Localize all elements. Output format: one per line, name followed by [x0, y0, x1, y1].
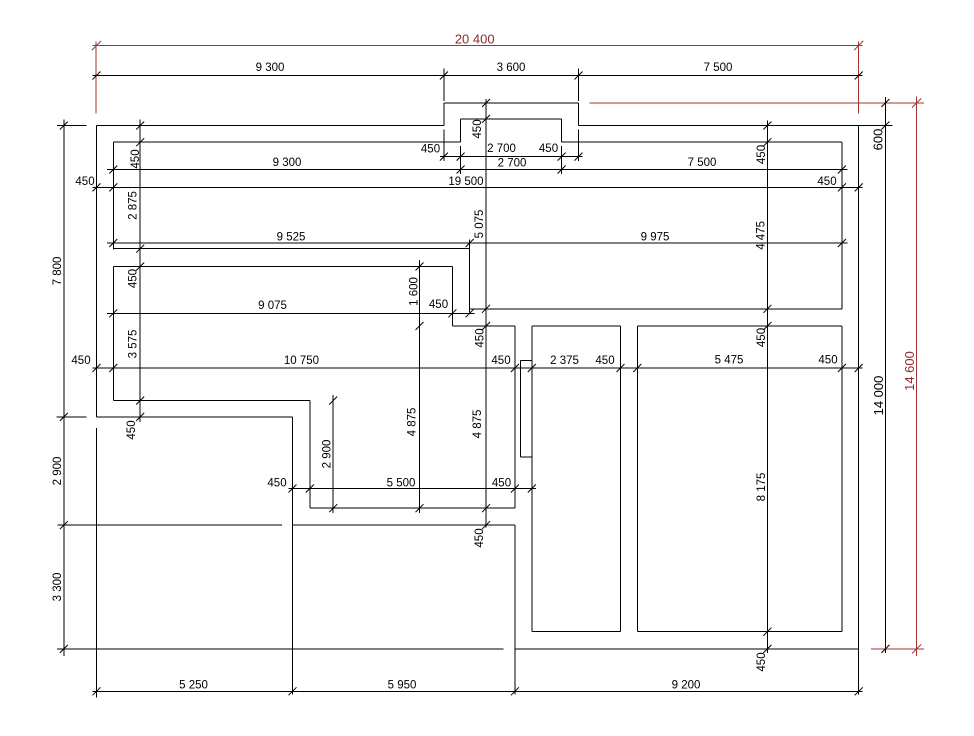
- red tick 14600 top: [912, 98, 921, 107]
- wall C bottom edge (Y5375): [452, 325, 842, 327]
- svg-text:450: 450: [756, 145, 768, 164]
- wall C top edge (Y4925): [470, 308, 842, 310]
- label 7 500 (T1): [704, 62, 733, 74]
- red label 14 600: [902, 351, 917, 391]
- label 450 (T4 r): [817, 176, 836, 188]
- wall: bump top outer edge: [444, 102, 579, 104]
- svg-text:450: 450: [130, 149, 142, 168]
- svg-text:450: 450: [818, 354, 837, 366]
- svg-text:450: 450: [756, 652, 768, 671]
- wall: bump inner left: [460, 119, 462, 142]
- wall D top edge (Y10250): [310, 507, 515, 509]
- wall A/C connector mid (X9975): [469, 240, 471, 313]
- label 4 875 (left): [406, 408, 418, 437]
- label 9 300 (T3): [273, 157, 302, 169]
- label 3 575: [128, 330, 140, 359]
- label 5 075: [474, 210, 486, 239]
- svg-text:450: 450: [75, 176, 94, 188]
- label 2 700 (T3): [498, 157, 527, 169]
- label 8 175: [756, 473, 768, 502]
- svg-text:2 900: 2 900: [321, 440, 333, 469]
- label 9 975 (M1): [641, 231, 670, 243]
- ticks T3: [109, 166, 846, 174]
- dim line T2 (450/2700/450): [440, 156, 583, 158]
- label 450 (li b): [128, 269, 140, 288]
- label 450 (T4 l): [75, 176, 94, 188]
- ticks bottom: [93, 687, 863, 695]
- label 600: [870, 129, 885, 151]
- svg-text:5 500: 5 500: [387, 477, 416, 489]
- dim line M2 (9075/450): [107, 312, 475, 314]
- label 9 200: [672, 679, 701, 691]
- svg-text:19 500: 19 500: [448, 176, 483, 188]
- svg-text:4 875: 4 875: [472, 410, 484, 439]
- red ext bottom (right): [871, 648, 924, 650]
- wall V3 right edge (X11650): [531, 326, 533, 632]
- wall: bottom wall inner edge under rooms: [532, 631, 842, 633]
- svg-text:450: 450: [126, 420, 138, 439]
- svg-text:14 000: 14 000: [871, 376, 886, 416]
- svg-text:450: 450: [492, 477, 511, 489]
- svg-text:2 875: 2 875: [128, 191, 140, 220]
- label 5 500: [387, 477, 416, 489]
- wall: bump inner right: [561, 119, 563, 142]
- label 450 (li a): [130, 149, 142, 168]
- ext T2 inner left: [460, 146, 462, 174]
- wall: bump outer right: [578, 103, 580, 126]
- svg-text:20 400: 20 400: [455, 31, 495, 46]
- label 450 (T2 l): [421, 143, 440, 155]
- svg-text:9 975: 9 975: [641, 231, 670, 243]
- dim line left inner chain: [139, 120, 141, 423]
- svg-text:2 700: 2 700: [487, 143, 516, 155]
- label 2 875: [128, 191, 140, 220]
- svg-text:1 600: 1 600: [408, 277, 420, 306]
- ticks M1: [109, 239, 846, 247]
- wall A bottom edge (Y3775): [113, 266, 452, 268]
- svg-text:450: 450: [71, 355, 90, 367]
- svg-text:450: 450: [474, 328, 486, 347]
- svg-text:3 300: 3 300: [52, 573, 64, 602]
- label 450 (M2): [429, 299, 448, 311]
- label 450 (5500 l): [267, 477, 286, 489]
- svg-text:450: 450: [817, 176, 836, 188]
- svg-text:450: 450: [429, 299, 448, 311]
- ticks left chain: [60, 122, 68, 653]
- ticks T4: [93, 183, 863, 191]
- svg-text:450: 450: [267, 477, 286, 489]
- dim line x486 chain: [485, 99, 487, 528]
- svg-text:9 075: 9 075: [258, 300, 287, 312]
- svg-text:7 800: 7 800: [52, 257, 64, 286]
- red ext left: [95, 42, 97, 114]
- svg-text:600: 600: [870, 129, 885, 151]
- label 7 800: [52, 257, 64, 286]
- svg-text:2 700: 2 700: [498, 157, 527, 169]
- svg-text:3 575: 3 575: [128, 330, 140, 359]
- label 450 (x486 a): [472, 119, 484, 138]
- dim line right outer chain: [884, 97, 886, 653]
- dim line right inner chain: [766, 120, 768, 653]
- svg-text:450: 450: [756, 328, 768, 347]
- label 9 525 (M1): [277, 231, 306, 243]
- wall: top wall inner edge: [113, 141, 842, 143]
- svg-text:4 875: 4 875: [406, 408, 418, 437]
- wall: bottom outer edge (gap near X11000): [57, 648, 859, 650]
- label 450 (r368 b): [491, 355, 510, 367]
- label 450 (r368 c): [595, 355, 614, 367]
- ticks row368: [93, 364, 863, 372]
- svg-text:2 375: 2 375: [550, 355, 579, 367]
- svg-text:5 950: 5 950: [388, 679, 417, 691]
- red tick 14600 bottom: [912, 644, 921, 653]
- label 5 250: [179, 679, 208, 691]
- svg-text:5 250: 5 250: [179, 679, 208, 691]
- wall A/C connector left (X9530): [451, 267, 453, 327]
- svg-text:450: 450: [539, 143, 558, 155]
- label 9 075 (M2): [258, 300, 287, 312]
- label 3 600 (T1): [497, 62, 526, 74]
- wall X5700 vertical: [309, 401, 311, 509]
- svg-text:4 475: 4 475: [756, 221, 768, 250]
- wall V3 left edge (X11200): [514, 326, 516, 695]
- label 7 500 (T3): [688, 157, 717, 169]
- wall V4 right edge (X14475): [636, 326, 638, 632]
- wall X5250 vertical: [292, 417, 294, 695]
- ext T2 left: [443, 130, 445, 162]
- dim line 2900 mid: [332, 395, 334, 513]
- wall: left inner face (gap at wall A): [112, 142, 114, 400]
- svg-text:9 300: 9 300: [256, 62, 285, 74]
- wall B top edge (Y7350): [113, 400, 310, 402]
- red ext top (bump level): [590, 102, 924, 104]
- svg-text:9 300: 9 300: [273, 157, 302, 169]
- dim line bottom (5250/5950/9200): [93, 690, 863, 692]
- label 450 (x486 b): [474, 328, 486, 347]
- label 9 300 (T1): [256, 62, 285, 74]
- ticks right inner: [763, 122, 771, 653]
- ticks T1: [93, 72, 863, 80]
- label 14 000: [871, 376, 886, 416]
- svg-text:2 900: 2 900: [52, 457, 64, 486]
- wall: main top outer edge (left ext stub + spans around bump + right ext): [57, 125, 893, 127]
- svg-text:9 525: 9 525: [277, 231, 306, 243]
- svg-text:450: 450: [421, 143, 440, 155]
- svg-text:8 175: 8 175: [756, 473, 768, 502]
- label 5 475: [715, 354, 744, 366]
- svg-text:450: 450: [472, 119, 484, 138]
- ticks x486: [482, 99, 490, 529]
- label 19 500 (T4): [448, 176, 483, 188]
- label 450 (ri c): [756, 652, 768, 671]
- svg-text:14 600: 14 600: [902, 351, 917, 391]
- wall V4 left edge (X14025): [620, 326, 622, 632]
- svg-text:450: 450: [595, 355, 614, 367]
- dim line 1600/4875: [419, 260, 421, 513]
- red ext right: [858, 42, 860, 114]
- ext T2 inner right: [561, 146, 563, 174]
- svg-text:7 500: 7 500: [704, 62, 733, 74]
- label 2 900 (left): [52, 457, 64, 486]
- chimney recess rectangle on V3: [521, 361, 532, 458]
- red tick right: [854, 41, 863, 50]
- dim line T4 (450/19500/450): [93, 186, 863, 188]
- label 450 (r368 a): [71, 355, 90, 367]
- dim line left chain: [63, 120, 65, 657]
- wall: right inner face (gap at wall C): [841, 142, 843, 632]
- dim line T1 (9300/3600/7500): [93, 75, 863, 77]
- wall: left outer face (gap at opening): [96, 126, 98, 698]
- red dim line 20 400 (top): [93, 45, 863, 47]
- ticks T2: [440, 153, 583, 161]
- label 2 700 (T2): [487, 143, 516, 155]
- label 450 (5500 r): [492, 477, 511, 489]
- label 450 (ri b): [756, 328, 768, 347]
- ticks right outer: [881, 99, 889, 653]
- label 3 300: [52, 573, 64, 602]
- wall D bottom edge (Y10700, left stub + gap at X5250): [58, 524, 515, 526]
- label 450 (ri a): [756, 145, 768, 164]
- dim line T3 (9300/2700/7500): [107, 169, 848, 171]
- svg-text:450: 450: [474, 528, 486, 547]
- red tick left: [92, 41, 101, 50]
- ticks left inner chain: [136, 122, 144, 421]
- ext left chain Y7800 stub: [57, 416, 87, 418]
- svg-text:3 600: 3 600: [497, 62, 526, 74]
- label 10 750: [284, 355, 319, 367]
- svg-text:5 475: 5 475: [715, 354, 744, 366]
- svg-text:9 200: 9 200: [672, 679, 701, 691]
- svg-text:450: 450: [491, 355, 510, 367]
- ext T1 bump right: [578, 69, 580, 102]
- label 2 375: [550, 355, 579, 367]
- label 2 900 (mid): [321, 440, 333, 469]
- wall: bump outer left: [443, 103, 445, 126]
- wall A top edge (Y3325): [113, 248, 469, 250]
- wall: bump top inner edge: [461, 118, 562, 120]
- red label 20 400: [455, 31, 495, 46]
- label 450 (li c): [126, 420, 138, 439]
- wall: right outer face: [858, 126, 860, 695]
- label 1 600: [408, 277, 420, 306]
- svg-text:10 750: 10 750: [284, 355, 319, 367]
- svg-text:7 500: 7 500: [688, 157, 717, 169]
- label 4 475: [756, 221, 768, 250]
- svg-text:5 075: 5 075: [474, 210, 486, 239]
- label 5 950: [388, 679, 417, 691]
- label 450 (r368 d): [818, 354, 837, 366]
- label 450 (x486 c): [474, 528, 486, 547]
- ext T1 bump left: [443, 69, 445, 102]
- wall B bottom edge (Y7800): [97, 416, 293, 418]
- ticks M2: [109, 309, 473, 317]
- svg-text:450: 450: [128, 269, 140, 288]
- label 450 (T2 r): [539, 143, 558, 155]
- dim line 5500 row: [289, 488, 537, 490]
- ticks 5500 row: [289, 485, 536, 493]
- ticks 1600/4875: [416, 263, 424, 513]
- ticks 2900 mid: [329, 397, 337, 513]
- dim line M1 (9525/9975): [107, 242, 848, 244]
- dim line row368: [93, 367, 863, 369]
- red dim line 14 600 (right): [916, 97, 918, 657]
- label 4 875 (x486): [472, 410, 484, 439]
- ext T2 right: [578, 130, 580, 162]
